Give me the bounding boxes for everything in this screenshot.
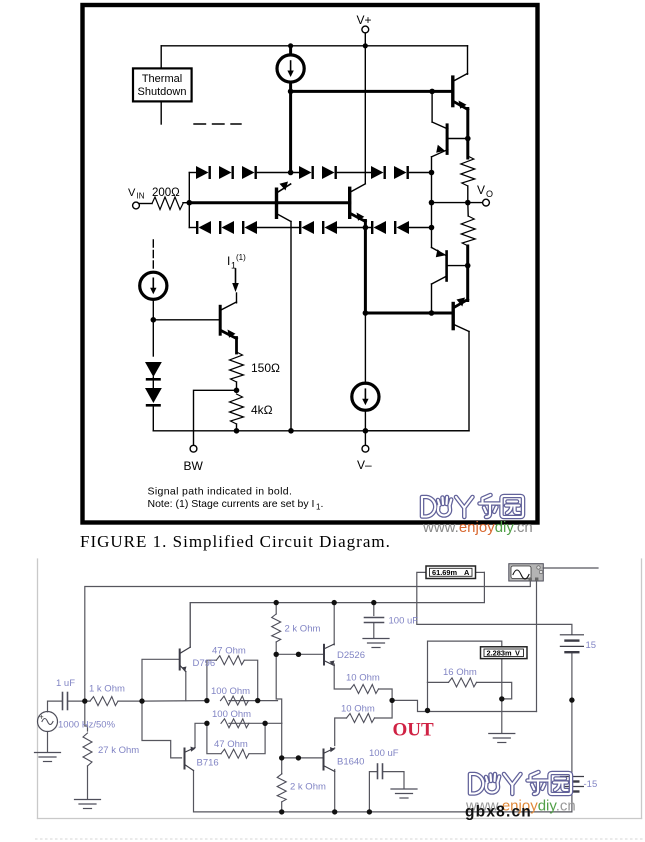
node dot D2526 base node 2 (296, 652, 301, 657)
transistor Q6 (PNP output, bold) (453, 298, 469, 332)
wire B1640 emitter up to 10 ohm 2 (335, 718, 347, 746)
wire Q4 emitter down to diode node (431, 157, 433, 173)
thermal shutdown box (133, 68, 192, 101)
svg-text:1000 Hz/50%: 1000 Hz/50% (58, 720, 116, 731)
svg-text:BW: BW (184, 459, 204, 473)
battery -15 (560, 777, 583, 792)
wire dashed above left current source (152, 240, 154, 268)
wire V+ column current source to bottom (364, 313, 366, 384)
svg-text:1 k Ohm: 1 k Ohm (89, 684, 125, 695)
node junction dot top rail / current source (288, 43, 293, 48)
wire 10 ohm 1 to OUT (379, 689, 393, 700)
node junction dot top rail / V+ (363, 43, 368, 48)
svg-text:47 Ohm: 47 Ohm (214, 739, 248, 750)
node junction dot Q1 collector / bottom rail (288, 428, 294, 434)
node V+ terminal (357, 13, 372, 33)
node dot 2k bottom rail (279, 809, 284, 814)
node junction dot diode row / current source column (288, 170, 294, 176)
svg-text:OUT: OUT (393, 720, 435, 741)
resistor 47 Ohm row1 (216, 656, 244, 665)
svg-text:Note: (1) Stage currents are s: Note: (1) Stage currents are set by I (148, 498, 315, 510)
current source top (bold) (277, 55, 304, 82)
wire B716 emitter up to 100 ohm row 2 (195, 723, 207, 747)
svg-text:2 k Ohm: 2 k Ohm (290, 782, 326, 793)
svg-text:O: O (486, 189, 493, 199)
voltmeter 2.283m V (481, 647, 528, 659)
svg-text:V–: V– (357, 458, 372, 472)
svg-text:27 k Ohm: 27 k Ohm (98, 745, 139, 756)
wire Q7 base (153, 319, 219, 321)
wire battery middle column (571, 653, 573, 777)
wire 47 ohm row 2 left (207, 723, 221, 753)
wire node B right to 100 ohm row 1 (142, 700, 207, 703)
node VO terminal (477, 183, 493, 206)
wire 47 ohm row 1 (207, 660, 216, 700)
wire 10 ohm 2 to OUT (375, 700, 393, 718)
node junction dot Q6 base line left (363, 310, 369, 316)
node dot row1 left (204, 698, 209, 703)
svg-text:www.enjoydiy.cn: www.enjoydiy.cn (422, 519, 533, 536)
wire bold Q2 emitter down to Q6 base line (364, 221, 367, 314)
wire D2526 emitter to 10 ohm (334, 664, 350, 689)
wire Q6 collector down and to V- node (365, 332, 469, 431)
node dot row2 left (204, 721, 209, 726)
wire 16 ohm right (477, 682, 512, 699)
resistor R (Q3 emitter to VO), sketchy (461, 156, 475, 186)
wire input node up to top diode row (188, 173, 190, 203)
node dot B1640 base 2 (296, 755, 301, 760)
oscilloscope icon (509, 564, 544, 581)
svg-text:D2526: D2526 (337, 650, 365, 661)
wire Q7 collector up to I1 (236, 293, 238, 303)
svg-text:10 Ohm: 10 Ohm (341, 704, 375, 715)
wire resistor to VO node (467, 186, 469, 203)
svg-text:Shutdown: Shutdown (138, 86, 187, 98)
node VO junction dots and wire (432, 202, 483, 204)
wire 100 ohm row 2 (229, 722, 264, 724)
frame of simulation screenshot (38, 559, 642, 819)
ground under load (489, 734, 515, 743)
svg-text:+: + (39, 713, 44, 722)
resistor 2 kOhm bottom (277, 774, 286, 802)
ground under AC source (35, 753, 61, 762)
wire AC source to capacitor (48, 701, 63, 712)
faint scan line page bottom (35, 838, 645, 840)
node dot row2 right (262, 721, 267, 726)
node junction dot Q5 base (465, 263, 471, 269)
node junction dot Q4 base (465, 136, 471, 142)
svg-text:A: A (464, 568, 470, 577)
wire input node down to bottom diode row (188, 203, 190, 228)
wire D796 collector to rail (189, 603, 191, 648)
transistor B716 (PNP) (185, 747, 196, 771)
resistor 2 kOhm top (272, 614, 281, 642)
node dot node B (139, 698, 144, 703)
capacitor 100uF top (365, 618, 384, 623)
wire 100 ohm row 2 right to bias column (264, 722, 282, 724)
wire node B up to D796 base (142, 659, 179, 701)
wire 100 ohm row 1 right to bias column (229, 700, 278, 702)
diode string bottom row (196, 221, 409, 234)
wire bold Q3 emitter down to resistor (466, 109, 469, 159)
wire bold bias line to Q3 base (291, 90, 452, 93)
svg-text:1 uF: 1 uF (56, 678, 75, 689)
svg-text:D796: D796 (193, 658, 216, 669)
wire VIN to resistor (140, 203, 153, 205)
wire voltmeter loop (428, 641, 502, 699)
wire AC source to ground (47, 732, 49, 753)
transistor Q4 (PNP, output top) (432, 122, 468, 157)
node junction dot bottom row / Q2 emitter (363, 225, 369, 231)
wire bold input signal line to Q1 Q2 bases (189, 201, 349, 204)
wire 100uF2 right to ground (384, 772, 405, 788)
wire top diode row (189, 172, 431, 174)
label I1(1) (227, 253, 246, 271)
resistor 16 Ohm load (449, 678, 477, 687)
resistor 200 ohm (input) (152, 197, 183, 210)
wire scope channel A to input node (85, 581, 531, 701)
wire V+ column down to Q2 collector (364, 46, 366, 184)
AC source (38, 712, 58, 732)
wire dashed from thermal shutdown (194, 123, 241, 125)
wire V+ stub down (364, 33, 366, 46)
wire capacitor to input node (68, 700, 90, 702)
resistor 1 kOhm (90, 697, 118, 706)
svg-text:(1): (1) (236, 253, 246, 262)
wire B1640 base (282, 757, 322, 759)
svg-text:100 uF: 100 uF (369, 748, 399, 759)
svg-text:2.283m: 2.283m (487, 649, 512, 658)
svg-text:gbx8.cn: gbx8.cn (465, 804, 532, 821)
wire 150 ohm to BW node (236, 382, 238, 390)
node dot row1 right (255, 698, 260, 703)
transistor B1640 (PNP) (324, 747, 336, 772)
wire input node to 27k (85, 701, 88, 731)
node dot D2526 base node (274, 652, 279, 657)
svg-text:15: 15 (586, 640, 597, 651)
transistor Q7 (second stage NPN, bold) (220, 302, 236, 339)
resistor 100 Ohm row1 (221, 696, 249, 705)
node junction dot 4k / bottom rail (234, 428, 240, 434)
svg-text:100 Ohm: 100 Ohm (212, 709, 251, 720)
node junction dot V- rail (363, 428, 369, 434)
svg-text:B716: B716 (197, 758, 219, 769)
node dot 2k top (274, 600, 279, 605)
wire 47 ohm row 2 right (249, 723, 265, 753)
svg-text:I: I (227, 254, 230, 268)
ground under 100uF bottom (391, 789, 417, 798)
node dot battery mid (569, 697, 574, 702)
node junction dot diode row right (429, 170, 435, 176)
diode string top row (196, 166, 409, 179)
svg-text:61.69m: 61.69m (432, 568, 457, 577)
wire Q5 collector down (431, 284, 433, 313)
node dot D2526 collector on rail (332, 600, 337, 605)
wire OUT to load (392, 700, 536, 711)
wire load left vertical (427, 682, 429, 710)
svg-text:B1640: B1640 (337, 757, 364, 768)
transistor D796 (NPN) (180, 647, 191, 672)
transistor D2526 (NPN) (324, 644, 335, 666)
svg-text:V: V (515, 649, 520, 658)
diode D-left-2 (pointing down) (145, 388, 162, 407)
wire bold Q7 emitter to 150 ohm (235, 338, 238, 354)
wire bias column lower (281, 723, 283, 773)
frame of Figure 1 (83, 5, 538, 523)
node dot 100uF2 rail (367, 809, 372, 814)
node junction dot BW tap (234, 388, 240, 394)
svg-text:100 uF: 100 uF (389, 616, 419, 627)
wire bold current source to bias line (289, 82, 292, 173)
resistor R2 (VO to Q6 emitter), sketchy (461, 216, 475, 246)
node junction dot input (187, 200, 193, 206)
battery +15 (560, 635, 583, 652)
svg-text:150Ω: 150Ω (251, 361, 280, 375)
resistor 10 Ohm 1 (351, 685, 379, 694)
svg-text:.: . (321, 498, 324, 510)
wire B1640 collector to bottom rail (334, 770, 336, 812)
wire bottom rail (153, 430, 469, 432)
svg-text:Thermal: Thermal (142, 73, 182, 85)
wire bold Q6 base line (365, 312, 452, 315)
watermark logo bottom figure (470, 772, 571, 794)
ammeter 61.69m A (426, 566, 484, 579)
resistor 27 kOhm (83, 733, 92, 766)
node dot input (82, 698, 87, 703)
node junction dot Q6 base line / Q5 collector (429, 310, 435, 316)
wire diodes column (152, 377, 154, 431)
wire D2526 collector to rail (333, 603, 335, 645)
svg-text:V: V (477, 183, 485, 197)
node junction dot Q4 collector tap (429, 89, 435, 95)
wire I1 arrow (232, 269, 239, 292)
wire 100uF1 hang (373, 603, 375, 616)
wire current source to V- node (364, 410, 366, 431)
svg-text:4kΩ: 4kΩ (251, 403, 273, 417)
wire 2k2 to bottom rail (281, 802, 283, 812)
svg-text:IN: IN (137, 192, 145, 201)
wire resistor to input node (183, 202, 189, 204)
node BW terminal (184, 445, 204, 473)
wire bold R2 to Q6 emitter (466, 246, 469, 301)
wire node B down to B716 base (142, 701, 182, 758)
transistor Q2 (input NPN follower, bold) (350, 184, 366, 222)
transistor Q3 (top NPN darlington, bold) (453, 74, 468, 110)
node dot B1640 base 1 (279, 755, 284, 760)
svg-text:16 Ohm: 16 Ohm (443, 667, 477, 678)
transistor Q1 (input PNP follower, bold) (277, 182, 292, 222)
wire top rail (161, 45, 467, 47)
wire D2526 base (276, 653, 322, 655)
wire Q4/Q5 column (diode node down) (431, 173, 433, 248)
resistor 100 Ohm row2 (221, 719, 249, 728)
wire BW tap (194, 390, 237, 445)
wire 2k bottom hang (281, 773, 283, 775)
svg-text:200Ω: 200Ω (152, 187, 180, 199)
svg-text:Signal path indicated in bold.: Signal path indicated in bold. (148, 486, 293, 498)
svg-text:V: V (128, 187, 136, 199)
ground under 27k (75, 800, 101, 809)
capacitor 100uF bottom (378, 764, 383, 779)
node dot B1640 collector rail (332, 809, 337, 814)
svg-text:2 k Ohm: 2 k Ohm (285, 624, 321, 635)
svg-text:-15: -15 (584, 779, 598, 790)
wire 27k to ground (87, 766, 89, 799)
wire D796 emitter down (185, 672, 187, 701)
watermark logo top figure (422, 495, 523, 517)
wire 100uF1 to ground (373, 624, 375, 638)
wire 47 ohm row 1 right (244, 660, 257, 700)
node VIN terminal (128, 187, 145, 209)
wire bold from top rail to current source I (289, 46, 292, 55)
wire collector rail (190, 572, 484, 647)
current source bottom right (bold) (352, 383, 379, 410)
wire bottom diode row (189, 227, 431, 229)
wire bias column upper (276, 654, 282, 723)
wire 100uF2 left to bottom rail (369, 772, 376, 812)
node dot 100uF rail (371, 600, 376, 605)
current source left (bold) (140, 272, 167, 299)
transistor Q5 (PNP small, lower) (432, 248, 468, 285)
wire 16 ohm row (428, 681, 449, 683)
wire scope channel B down to OUT line (536, 581, 538, 712)
wire thermal shutdown to top rail (160, 46, 162, 69)
svg-text:100 Ohm: 100 Ohm (211, 686, 250, 697)
wire 2k bottom to base node (275, 642, 277, 654)
node dot OUT (389, 698, 394, 703)
wire below thermal shutdown box (160, 101, 162, 124)
node junction dot Q7 base (151, 317, 157, 323)
wire current source to Q7 base node (152, 299, 154, 356)
svg-text:FIGURE 1. Simplified Circuit D: FIGURE 1. Simplified Circuit Diagram. (80, 532, 391, 551)
wire top rail corner down to Q3 collector (467, 46, 469, 74)
wire -15 battery to bottom rail (194, 771, 572, 812)
node dot load right (499, 696, 504, 701)
node junction dot at bias line (288, 89, 294, 95)
ground under 100uF top (363, 639, 389, 648)
wire 4k to bottom rail (236, 424, 238, 431)
node junction dot bottom row right (429, 225, 435, 231)
wire load node to ground (501, 699, 503, 733)
resistor 47 Ohm row2 (221, 749, 249, 758)
wire Q4 collector up to bias line (431, 91, 433, 122)
wire 1k to node B (118, 700, 142, 702)
resistor 10 Ohm 2 (347, 714, 375, 723)
wire scope right stub (543, 567, 598, 569)
resistor 4k ohm (230, 394, 244, 424)
resistor 150 ohm (230, 352, 244, 382)
wire ammeter left pin to battery (417, 572, 572, 634)
wire 2k top resistor hang (275, 603, 277, 614)
node V- terminal (357, 431, 372, 472)
svg-text:V+: V+ (357, 13, 372, 27)
svg-text:10 Ohm: 10 Ohm (346, 673, 380, 684)
wire VO node to R2 (467, 203, 469, 216)
wire Q1 collector down to bottom rail (290, 222, 292, 431)
svg-text:47 Ohm: 47 Ohm (212, 646, 246, 657)
node dot load left (425, 708, 430, 713)
diode D-left-1 (pointing down) (145, 362, 162, 381)
capacitor 1uF (63, 693, 68, 710)
